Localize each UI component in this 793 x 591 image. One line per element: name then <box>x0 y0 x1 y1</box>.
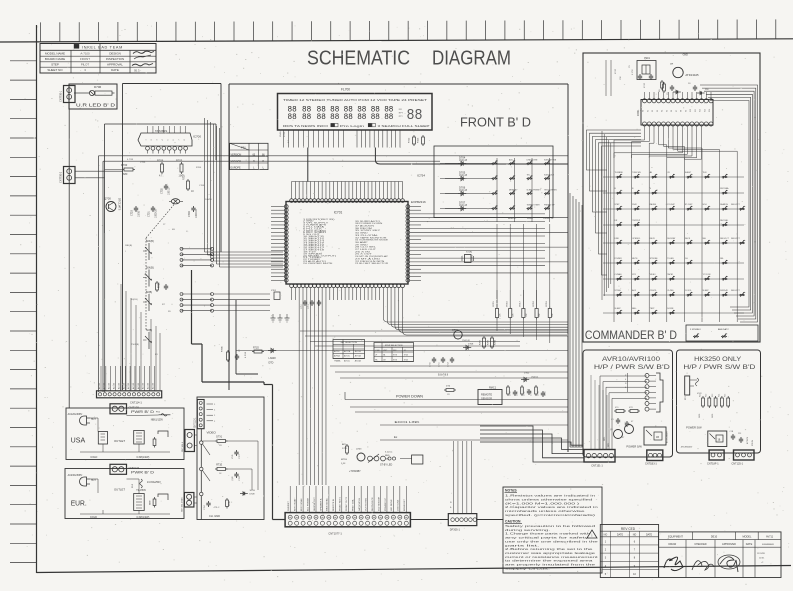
svg-text:SEL: SEL <box>720 258 724 260</box>
svg-text:AC120: AC120 <box>132 382 135 389</box>
caps (HK) <box>730 431 755 446</box>
svg-text:supply circuit.: supply circuit. <box>505 566 551 570</box>
svg-text:AV1/4A: AV1/4A <box>355 359 362 362</box>
connector CNT129 <box>110 404 139 414</box>
svg-text:S3: S3 <box>657 110 659 112</box>
svg-text:D: D <box>451 501 453 503</box>
svg-text:2: 2 <box>605 549 607 552</box>
diode D71D 1N448 <box>268 348 276 364</box>
svg-text:88: 88 <box>317 113 326 122</box>
svg-text:DOWN: DOWN <box>667 308 674 310</box>
svg-text:C706: C706 <box>199 185 205 187</box>
svg-text:1131/99: 1131/99 <box>757 553 766 555</box>
AC plug symbol USA <box>80 416 97 425</box>
svg-text:SUR ESTVNB: SUR ESTVNB <box>544 159 557 161</box>
svg-text:MEMORY: MEMORY <box>509 189 518 191</box>
svg-text:SENSOR: SENSOR <box>481 397 492 401</box>
IC bottom bus bend right <box>383 300 568 335</box>
svg-text:C730: C730 <box>510 391 512 396</box>
key switch SW965 T-T/COM <box>703 274 711 280</box>
svg-text:7: 7 <box>178 139 180 141</box>
svg-text:S0: S0 <box>643 110 645 112</box>
parts column (AVR) <box>625 373 628 392</box>
svg-text:DIAGRAM: DIAGRAM <box>432 48 511 70</box>
FL700 bottom legend <box>283 123 430 127</box>
svg-text:C1B: C1B <box>730 431 734 433</box>
svg-text:CNT101-1: CNT101-1 <box>182 441 184 452</box>
svg-text:NO: NO <box>604 534 608 537</box>
svg-text:REV CED: REV CED <box>621 527 636 531</box>
svg-text:specified. (p=micromicrofarad: specified. (p=micromicrofarads) <box>505 513 595 517</box>
svg-text:AV711: AV711 <box>766 535 774 538</box>
svg-text:TUN: TUN <box>703 172 708 174</box>
left matrix bus <box>602 131 611 300</box>
svg-text:DECK/AT: DECK/AT <box>667 237 676 240</box>
IC701 top pin leads <box>292 182 403 199</box>
key switch SW910 B <box>615 188 623 194</box>
IC bottom components X701 <box>271 290 321 309</box>
svg-text:D710: D710 <box>284 131 286 137</box>
key grid column wires <box>445 158 550 222</box>
key switch SW943 DECK/AT <box>667 237 676 244</box>
svg-text:TEST: TEST <box>650 308 656 310</box>
resistor R71D <box>252 348 264 354</box>
svg-text:473-C: 473-C <box>214 507 220 509</box>
bus wire FL to IC (right bold) <box>375 148 568 165</box>
svg-text:ST/B: ST/B <box>393 359 398 361</box>
svg-text:RT1E: RT1E <box>216 465 222 467</box>
wires above IC700 <box>148 126 186 133</box>
svg-text:CNT1077-1: CNT1077-1 <box>328 532 342 536</box>
IC701 microcontroller body <box>286 202 408 285</box>
key switch SW953 TULEN <box>667 258 675 264</box>
svg-text:1.Resistor values are indicate: 1.Resistor values are indicated in <box>505 494 596 498</box>
svg-text:X901: X901 <box>644 57 650 60</box>
svg-text:REC/SEL: REC/SEL <box>720 220 728 222</box>
key switch SW956 SEL <box>720 258 728 264</box>
version select table <box>230 143 268 169</box>
svg-text:SEL: SEL <box>703 238 707 240</box>
svg-text:21 BU SET SELECTOR: 21 BU SET SELECTOR <box>355 263 389 265</box>
svg-text:H/P / PWR S/W B'D: H/P / PWR S/W B'D <box>683 364 755 371</box>
resistor R707 1K <box>183 174 195 193</box>
svg-text:AC120: AC120 <box>151 382 154 389</box>
svg-text:RMC1: RMC1 <box>489 387 497 390</box>
svg-text:CNT114-1: CNT114-1 <box>130 400 142 404</box>
svg-text:POWER: POWER <box>615 258 623 260</box>
svg-text:DATE: DATE <box>746 543 753 546</box>
LED D706 <box>74 85 115 95</box>
svg-text:5UD SENSOR: 5UD SENSOR <box>378 496 380 511</box>
svg-text:S11: S11 <box>695 109 697 112</box>
IC701 pin name list right <box>355 220 389 265</box>
svg-text:473-E/400V: 473-E/400V <box>681 447 693 449</box>
key switch SW903 CD <box>667 172 675 178</box>
key switch SW946 SELV/LCT <box>720 238 730 244</box>
svg-text:COLD: COLD <box>90 516 97 519</box>
svg-text:UNIT: UNIT <box>383 350 388 352</box>
svg-text:1B: 1B <box>656 436 659 439</box>
potentiometer VR702 50K(B) <box>143 267 154 287</box>
svg-text:IC754: IC754 <box>417 174 425 178</box>
key matrix row wires <box>603 177 744 313</box>
transformer T2 (EUR) <box>134 494 145 511</box>
svg-text:DATE: DATE <box>111 68 119 72</box>
svg-text:AC1 POWER: AC1 POWER <box>306 497 309 511</box>
key switch SW931 TR/STEP <box>632 220 641 226</box>
svg-text:S8: S8 <box>681 110 683 112</box>
svg-text:S4: S4 <box>662 110 664 112</box>
svg-text:I: I <box>125 251 126 253</box>
svg-text:STEP: STEP <box>615 204 621 206</box>
svg-text:3: 3 <box>605 557 607 560</box>
svg-text:ST/A: ST/A <box>404 358 409 361</box>
resistor R1 (USA) <box>153 431 168 448</box>
svg-text:INSPECTION: INSPECTION <box>106 57 124 61</box>
svg-text:FU1: FU1 <box>156 412 161 414</box>
svg-text:S9: S9 <box>685 110 687 112</box>
key switch SW944 DECK <box>685 238 693 244</box>
svg-text:88: 88 <box>302 113 311 122</box>
key switch SW962 VIDEO <box>650 274 658 280</box>
resistor R706 4.7 <box>157 159 164 178</box>
svg-text:1BK(B): 1BK(B) <box>125 245 132 247</box>
resistor R705 10K <box>176 159 183 178</box>
date cell text <box>757 553 766 564</box>
svg-text:C735: C735 <box>545 391 547 396</box>
svg-text:ECO1 LINK: ECO1 LINK <box>395 420 420 424</box>
svg-text:SHEET: SHEET <box>685 172 692 174</box>
svg-text:470R: 470R <box>697 393 702 395</box>
svg-text:RDS TA NEWS INFO: RDS TA NEWS INFO <box>283 124 328 128</box>
svg-text:D704: D704 <box>459 155 466 159</box>
fuse FU2 (EUR) <box>132 479 161 492</box>
crystal X901 circuit <box>629 57 656 80</box>
IC bottom bus down to connectors <box>299 300 326 485</box>
svg-text:AC120: AC120 <box>117 382 120 389</box>
svg-text:TIMER/ STNBY: TIMER/ STNBY <box>527 204 541 206</box>
bus wire FL to IC (left bold) <box>307 148 309 182</box>
caps C704 220B 473-C <box>204 498 231 510</box>
FL700 grid resistors R712 R713 <box>409 135 425 146</box>
svg-text:GND: GND <box>683 54 689 57</box>
svg-text:!: ! <box>592 534 593 538</box>
svg-text:CNT113-1: CNT113-1 <box>195 417 197 428</box>
CNT114-1 leads above with labels <box>98 366 154 391</box>
svg-text:100/16: 100/16 <box>205 199 212 201</box>
svg-text:Pro Login: Pro Login <box>340 124 365 128</box>
svg-text:R705: R705 <box>176 159 183 163</box>
svg-text:TRAMA: TRAMA <box>334 359 341 362</box>
svg-text:use only the one described in: use only the one described in the <box>505 539 599 543</box>
diode-key matrix box <box>434 146 553 218</box>
svg-text:1000/16: 1000/16 <box>155 209 158 218</box>
svg-text:APPROVED: APPROVED <box>722 543 736 546</box>
svg-text:2.Capacitor values are indicat: 2.Capacitor values are indicated in <box>505 505 599 509</box>
svg-text:1: 1 <box>214 410 216 412</box>
svg-text:4: 4 <box>625 379 627 381</box>
key switch SW983 DOWN <box>667 308 675 314</box>
svg-text:AVC/3L: AVC/3L <box>344 355 350 358</box>
svg-text:100/10: 100/10 <box>168 187 171 195</box>
video bus wire with junctions <box>200 429 210 520</box>
svg-text:C701: C701 <box>148 211 151 217</box>
svg-text:POWER DOWN: POWER DOWN <box>396 395 424 399</box>
svg-text:COLD: COLD <box>90 456 97 459</box>
svg-text:R12: R12 <box>706 394 708 397</box>
key switch SW970 ST/SEL <box>615 290 623 296</box>
standby LEDs D711 <box>368 452 393 467</box>
svg-text:5: 5 <box>168 139 170 141</box>
svg-text:CNT1B3-1: CNT1B3-1 <box>645 463 657 466</box>
svg-text:1N4(1)4: 1N4(1)4 <box>531 377 539 379</box>
svg-text:R90: R90 <box>705 89 710 91</box>
svg-text:C710: C710 <box>430 361 432 367</box>
commander support parts <box>606 60 710 96</box>
key switch SW950 POWER <box>615 258 623 264</box>
AVR10/AVRI100 headphone-power board box <box>583 350 673 457</box>
IC701 left pins <box>284 205 288 283</box>
svg-text:4: 4 <box>162 139 164 141</box>
svg-text:D706: D706 <box>94 85 102 89</box>
key switch SW963 TAPE1 <box>667 273 675 280</box>
svg-text:88: 88 <box>371 113 380 122</box>
svg-text:C707: C707 <box>239 453 241 459</box>
svg-text:DTC114TS: DTC114TS <box>118 198 121 211</box>
svg-text:DR: DR <box>670 64 674 66</box>
svg-text:ST/B: ST/B <box>393 355 398 357</box>
resistor RT1E 1K <box>215 465 228 476</box>
svg-text:LN448: LN448 <box>269 357 277 360</box>
svg-text:USA: USA <box>71 438 86 445</box>
svg-text:HK3250 ONLY: HK3250 ONLY <box>694 356 741 363</box>
key grid column drops to resistor bank <box>497 224 550 343</box>
inner wires video box <box>226 441 259 490</box>
key switch SW902 AV <box>650 171 658 178</box>
svg-text:LP: LP <box>375 355 378 357</box>
svg-text:USA/CAN: USA/CAN <box>231 160 242 163</box>
svg-text:88: 88 <box>384 113 393 122</box>
bold routing wire 2 <box>236 300 258 374</box>
crystal X700 <box>462 250 474 263</box>
wire from CNT700-1 down left side <box>68 103 70 409</box>
svg-text:10/50: 10/50 <box>138 210 141 217</box>
signature APPROVED <box>718 555 740 572</box>
svg-text:ST/SEL: ST/SEL <box>615 290 622 292</box>
svg-text:BOARD NAME: BOARD NAME <box>45 57 65 61</box>
svg-text:1: 1 <box>214 404 216 406</box>
key switch S723 <box>544 189 558 195</box>
svg-text:88: 88 <box>330 113 339 122</box>
potentiometer VR704 50(B) <box>143 329 152 349</box>
svg-text:X700: X700 <box>466 250 473 254</box>
svg-text:DECK: DECK <box>650 238 656 240</box>
key switch SW925 SCH <box>703 204 711 210</box>
svg-text:C704: C704 <box>204 504 206 510</box>
svg-text:R706: R706 <box>157 159 164 163</box>
svg-text:7: 7 <box>634 549 636 552</box>
commander discrete parts <box>644 82 681 95</box>
svg-text:TEST STEREO: TEST STEREO <box>544 189 558 191</box>
key switch SW905 TUN <box>703 172 711 178</box>
svg-text:473-C/400V: 473-C/400V <box>667 431 669 443</box>
resistor DTX1 1R <box>203 437 228 448</box>
diode D702 1N4148 <box>521 373 539 382</box>
title block row labels <box>45 51 124 72</box>
key switch SW930 DR <box>615 220 623 226</box>
svg-text:customer was appropriate leaka: customer was appropriate leakage <box>505 551 596 555</box>
key switch SW971 AUX <box>632 289 640 296</box>
svg-text:1: 1 <box>214 421 216 423</box>
nested corner wires to CNT151-1 <box>480 426 584 462</box>
svg-text:PON/KEY ST: PON/KEY ST <box>385 497 387 511</box>
resistor DT4 <box>444 386 456 397</box>
svg-text:50K(B): 50K(B) <box>146 240 154 243</box>
svg-text:C720: C720 <box>131 210 134 216</box>
svg-text:3: 3 <box>157 139 159 141</box>
svg-text:PRESET UP: PRESET UP <box>543 218 554 220</box>
svg-text:ST-CH/P: ST-CH/P <box>685 204 693 206</box>
SET SELECTION table <box>333 340 365 363</box>
heading SCHEMATIC DIAGRAM <box>307 48 511 70</box>
FRONT board outer box <box>229 84 568 452</box>
key switch SW973 CL/SEL <box>667 290 675 296</box>
key switch SW900 TUN/BND <box>615 172 624 178</box>
svg-text:B1: B1 <box>155 354 158 356</box>
svg-text:Q703: Q703 <box>356 449 362 451</box>
key switch SW920 STEP <box>615 204 623 210</box>
svg-text:3 STEREO: 3 STEREO <box>690 329 701 331</box>
capacitor C702 100/10 <box>161 184 171 195</box>
svg-text:B.8x7/8.8: B.8x7/8.8 <box>438 374 449 377</box>
svg-text:during servicing.: during servicing. <box>505 528 551 532</box>
diode D705 1N4148 <box>440 170 468 180</box>
svg-text:S6: S6 <box>671 110 673 112</box>
svg-text:47/25: 47/25 <box>644 82 646 88</box>
svg-text:TAPE1: TAPE1 <box>667 273 673 276</box>
svg-text:CNT700-2: CNT700-2 <box>60 171 63 183</box>
svg-text:S1: S1 <box>647 110 649 112</box>
connector CNT700-1 (upper) <box>60 86 76 103</box>
transistor Q700 DTC114TS <box>104 197 121 212</box>
svg-text:IC701: IC701 <box>334 211 343 215</box>
long bus wires y155 <box>99 156 569 392</box>
resistor R70B <box>222 346 248 362</box>
net label POWER DOWN <box>345 392 568 400</box>
horizontal bus lines center-right <box>300 331 568 412</box>
key grid bottom labels <box>508 218 554 220</box>
svg-text:R716: R716 <box>506 300 508 306</box>
svg-text:1N4148: 1N4148 <box>462 340 470 342</box>
IC901 encoder <box>637 99 713 126</box>
notes box <box>503 487 602 573</box>
svg-text:8: 8 <box>634 557 636 560</box>
approval table <box>659 532 781 578</box>
svg-text:PILOT: PILOT <box>81 63 90 67</box>
wire through R71D <box>236 350 568 352</box>
svg-text:1000/16: 1000/16 <box>195 209 198 218</box>
key switch SW951 MUTE <box>632 258 640 264</box>
svg-text:ohms unless otherwise specifie: ohms unless otherwise specified <box>505 497 594 501</box>
IC701 right pins <box>406 205 410 283</box>
svg-text:(1)20: (1)20 <box>232 475 234 481</box>
svg-text:CH: CH <box>685 258 688 260</box>
svg-text:PWR B' D: PWR B' D <box>131 410 155 414</box>
AC plug symbol EUR <box>80 477 97 486</box>
left circuits outer box <box>123 84 222 391</box>
HK3250 headphone-power board box <box>677 350 761 453</box>
key switch SW952 STROBE <box>650 258 659 264</box>
svg-text:INKEL EAD TEAM: INKEL EAD TEAM <box>82 45 123 49</box>
harness leads and signal names <box>288 486 406 513</box>
svg-text:TR/STEP: TR/STEP <box>632 220 641 222</box>
svg-text:MAIN CN/AC: MAIN CN/AC <box>326 498 329 511</box>
svg-text:10K: 10K <box>552 313 554 317</box>
svg-text:L: L <box>263 166 265 169</box>
resistor R721 <box>156 281 169 292</box>
svg-text:NEM: NEM <box>150 500 152 505</box>
svg-text:R721: R721 <box>159 282 161 288</box>
svg-text:AC120: AC120 <box>103 382 106 389</box>
svg-text:PTY: PTY <box>399 116 404 118</box>
resistor network (HK) <box>697 393 730 418</box>
remote sensor RMC1 <box>478 387 502 405</box>
svg-text:DESIGN: DESIGN <box>109 51 121 55</box>
svg-text:D9: D9 <box>688 83 691 85</box>
svg-text:1R: 1R <box>219 445 222 447</box>
svg-text:Q700: Q700 <box>104 197 111 201</box>
net label ECO1 LINK <box>380 420 568 425</box>
svg-text:R712: R712 <box>409 137 411 143</box>
svg-text:SELV/LCT: SELV/LCT <box>731 238 741 240</box>
svg-text:10K: 10K <box>513 313 515 317</box>
EUR wires <box>80 479 170 514</box>
svg-text:SELV/LCT: SELV/LCT <box>720 238 730 240</box>
svg-text:AC120v/60Hz: AC120v/60Hz <box>68 413 84 416</box>
key scan junction nodes group 1 <box>180 247 214 267</box>
svg-text:HK: HK <box>375 359 378 361</box>
svg-text:PLAY: PLAY <box>632 203 637 206</box>
svg-text:R704: R704 <box>196 167 202 169</box>
svg-text:C713: C713 <box>308 304 310 309</box>
svg-text:5.1xCC: 5.1xCC <box>385 452 393 454</box>
svg-text:SIG.: SIG. <box>604 436 606 441</box>
svg-text:DR: DR <box>399 109 402 111</box>
wire pair from CNT700-2 to front board <box>75 171 123 178</box>
svg-text:2M: 2M <box>383 359 386 361</box>
svg-text:S7: S7 <box>676 110 678 112</box>
svg-text:D702: D702 <box>524 373 530 375</box>
key switch SW906 <box>722 174 728 179</box>
svg-text:R700: R700 <box>121 163 128 167</box>
svg-text:3600: 3600 <box>712 414 714 418</box>
svg-text:R9: R9 <box>659 89 661 92</box>
key switch SW982 TEST <box>650 308 658 314</box>
svg-text:OPEN/CL: OPEN/CL <box>632 238 640 240</box>
key switch SW974 CL/VOL <box>685 290 693 296</box>
svg-text:C715: C715 <box>140 162 146 164</box>
svg-text:NOTES: NOTES <box>505 489 517 493</box>
diode D704 1N4148 <box>440 155 468 165</box>
resistor R2 (EUR) <box>150 494 169 508</box>
svg-text:MUTE: MUTE <box>632 258 638 260</box>
svg-text:4B: 4B <box>172 229 175 231</box>
svg-text:CL/SEL: CL/SEL <box>667 290 674 292</box>
svg-text:6: 6 <box>634 540 636 543</box>
FL700 pin leads group A <box>284 130 344 147</box>
DF305-1 leads <box>451 441 472 514</box>
svg-text:VGD: VGD <box>232 454 234 459</box>
